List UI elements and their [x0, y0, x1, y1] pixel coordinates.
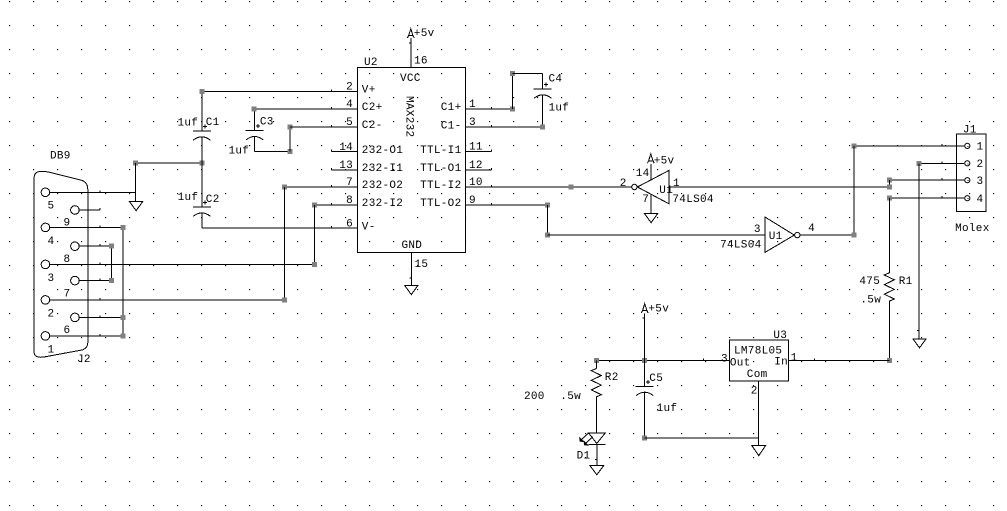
- power +5v (regulator output): [643, 304, 647, 311]
- svg-text:1uf: 1uf: [657, 403, 678, 415]
- junction J1 pin2 corner: [917, 161, 922, 166]
- DB9 pin 7: [71, 276, 80, 285]
- IC U2 MAX232 body: [358, 68, 466, 253]
- svg-text:475: 475: [859, 276, 880, 288]
- wire DB9 pin7: [79, 280, 111, 282]
- svg-text:VCC: VCC: [400, 73, 421, 85]
- U2 pin15 GND wire: [410, 253, 412, 286]
- svg-text:1: 1: [48, 344, 55, 356]
- svg-text:MAX232: MAX232: [402, 96, 414, 137]
- svg-text:1: 1: [673, 178, 680, 190]
- wire U3 pin2 Com down: [758, 381, 760, 446]
- capacitor C5: [636, 385, 654, 387]
- junction C2+: [252, 107, 257, 112]
- J1 pin 3: [965, 178, 970, 183]
- wire J1 pin2 down to ground: [918, 163, 920, 339]
- wire U2 pin11 stub: [466, 151, 492, 153]
- svg-text:U3: U3: [773, 330, 787, 342]
- svg-text:V-: V-: [362, 221, 376, 233]
- wire U1a output to J1 pin3 net: [669, 186, 890, 188]
- capacitor C4: [534, 88, 552, 90]
- ground symbol (J1 pin2): [913, 339, 926, 348]
- svg-text:.5w: .5w: [560, 391, 581, 403]
- wire U2 pin1 C1+: [466, 108, 513, 110]
- junction Out/R2: [594, 358, 599, 363]
- DB9 pin 6: [71, 313, 80, 322]
- wire to U1b input: [547, 234, 765, 236]
- svg-text:3: 3: [721, 353, 728, 365]
- svg-text:+5v: +5v: [414, 28, 435, 40]
- svg-text:15: 15: [415, 259, 429, 271]
- svg-text:16: 16: [414, 56, 428, 68]
- svg-text:74LS04: 74LS04: [672, 194, 714, 206]
- svg-text:74LS04: 74LS04: [720, 240, 762, 252]
- wire U2 pin12 stub: [466, 169, 492, 171]
- capacitor C2 lead bottom: [201, 213, 203, 228]
- wire DB9 pin5 to ground rail: [50, 191, 136, 193]
- svg-text:Molex: Molex: [955, 223, 990, 235]
- svg-text:R2: R2: [605, 372, 619, 384]
- svg-text:7: 7: [64, 288, 71, 300]
- wire U3 Out rail: [596, 360, 729, 362]
- wire DB9 pin9 stub: [79, 209, 100, 211]
- svg-text:4: 4: [977, 194, 984, 206]
- wire DB9 pin2 to U2 232-O2: [50, 299, 285, 301]
- junction Out/+5v/C5: [642, 358, 647, 363]
- svg-text:C2+: C2+: [362, 102, 383, 114]
- svg-text:232-I2: 232-I2: [362, 198, 403, 210]
- junction pin4: [121, 225, 126, 230]
- svg-text:1: 1: [791, 353, 798, 365]
- svg-text:232-O2: 232-O2: [362, 180, 403, 192]
- capacitor C1 lead top: [201, 92, 203, 132]
- capacitor C1 lead bottom: [201, 137, 203, 163]
- svg-text:TTL-I1: TTL-I1: [420, 145, 462, 157]
- wire J1 pin4: [889, 197, 964, 199]
- wire pin8-pin7 loop: [111, 246, 113, 280]
- wire C3 to C2-: [289, 127, 291, 152]
- wire C4 top rail: [512, 72, 542, 74]
- svg-text:C3: C3: [260, 117, 274, 129]
- wire DB9 pin6: [79, 316, 123, 318]
- svg-text:1uf: 1uf: [178, 117, 199, 129]
- wire U2 pin3 C1-: [466, 126, 543, 128]
- J1 pin 4: [965, 196, 970, 201]
- wire U2 pin7 232-O2: [285, 186, 358, 188]
- svg-text:DB9: DB9: [50, 151, 71, 163]
- capacitor C5 lead bottom: [644, 392, 646, 438]
- wire J1 pin3 down: [888, 180, 890, 187]
- svg-text:+5v: +5v: [648, 303, 669, 315]
- DB9 pin 3: [41, 260, 50, 269]
- junction V+: [199, 89, 204, 94]
- svg-text:C1-: C1-: [441, 120, 462, 132]
- svg-text:1uf: 1uf: [229, 145, 250, 157]
- wire J1 pin1: [854, 145, 964, 147]
- junction pin8: [109, 244, 114, 249]
- wire U2 pin14 stub: [332, 151, 358, 153]
- ground symbol (U2 pin15): [405, 286, 418, 295]
- wire DB9 pin4: [50, 226, 123, 228]
- svg-text:3: 3: [977, 176, 984, 188]
- svg-text:C5: C5: [649, 373, 663, 385]
- svg-text:Com: Com: [747, 369, 768, 381]
- svg-text:1uf: 1uf: [178, 192, 199, 204]
- wire +5v down to Out rail: [644, 314, 646, 361]
- svg-text:200: 200: [524, 391, 545, 403]
- junction U1b input corner: [545, 233, 550, 238]
- junction C4 top rail: [510, 71, 515, 76]
- svg-text:C2-: C2-: [362, 120, 383, 132]
- svg-text:C1: C1: [206, 117, 220, 129]
- wire U2 pin2 V+ to C1: [202, 91, 358, 93]
- svg-text:7: 7: [642, 194, 649, 206]
- svg-text:TTL-O2: TTL-O2: [420, 198, 461, 210]
- svg-text:232-I1: 232-I1: [362, 163, 404, 175]
- R2 lead bottom to D1: [595, 397, 597, 433]
- capacitor C2 lead top: [201, 163, 203, 207]
- DB9 pin 5: [41, 188, 50, 197]
- junction C5 bottom: [642, 435, 647, 440]
- LED D1: [588, 433, 605, 444]
- U1b output bubble: [795, 232, 800, 237]
- svg-text:4: 4: [48, 236, 55, 248]
- wire J1 pin4 down to R1: [888, 198, 890, 273]
- junction rail left: [133, 161, 138, 166]
- svg-text:14: 14: [636, 168, 650, 180]
- wire J1 pin1 down to U1b out: [853, 146, 855, 235]
- svg-text:C1+: C1+: [441, 102, 462, 114]
- svg-text:+5v: +5v: [654, 156, 675, 168]
- R1 lead bottom: [888, 301, 890, 361]
- U1a pin7 ground wire: [650, 194, 652, 214]
- connector J2 DB9 shell: [34, 172, 88, 358]
- resistor R1 475 .5w: [884, 273, 894, 301]
- junction J1 pin3 corner: [887, 178, 892, 183]
- D1 emission arrows: [581, 433, 593, 444]
- svg-text:6: 6: [64, 325, 71, 337]
- J1 pin 2: [965, 161, 970, 166]
- svg-text:C4: C4: [549, 74, 563, 86]
- wire U2 pin9 TTL-O2: [466, 204, 548, 206]
- svg-text:3: 3: [754, 224, 761, 236]
- junction TTL-O2 corner: [545, 202, 550, 207]
- wire 232-O2 down to DB9 pin2: [284, 187, 286, 300]
- DB9 pin 8: [71, 242, 80, 251]
- junction R1 / In rail: [887, 358, 892, 363]
- J1 pin 1: [965, 143, 970, 148]
- U1a pin14 +5v wire: [650, 164, 652, 180]
- svg-text:1uf: 1uf: [549, 103, 570, 115]
- capacitor C2: [193, 206, 211, 208]
- connector J1 Molex body: [956, 134, 986, 212]
- junction DB9 pin2 net: [282, 297, 287, 302]
- junction U1a out end: [887, 184, 892, 189]
- junction TTL-I2 wire: [569, 184, 574, 189]
- capacitor C4 lead top: [542, 73, 544, 89]
- wire ground rail: [136, 162, 202, 164]
- power +5v (U1a pin14): [649, 154, 653, 161]
- wire U2 pin6 V- to C2: [202, 227, 358, 229]
- capacitor C3 lead top: [254, 109, 256, 131]
- wire C3 bottom link: [255, 151, 290, 153]
- wire J1 pin2: [919, 162, 964, 164]
- wire pin4-pin6-pin1 bus: [122, 227, 124, 336]
- junction DB9 pin3 net: [312, 262, 317, 267]
- svg-text:In: In: [774, 357, 788, 369]
- capacitor C3: [246, 130, 264, 132]
- wire DB9 pin3 to U2 232-I2: [50, 263, 315, 265]
- svg-text:232-O1: 232-O1: [362, 145, 404, 157]
- svg-text:2: 2: [620, 178, 627, 190]
- DB9 pin 1: [41, 332, 50, 341]
- wire U1b output: [800, 234, 854, 236]
- junction C1- / C4: [540, 125, 545, 130]
- wire U2 pin10 TTL-I2 to U1a: [466, 186, 632, 188]
- svg-text:V+: V+: [362, 85, 376, 97]
- junction C1+: [510, 107, 515, 112]
- junction 232-I2: [312, 202, 317, 207]
- junction J1 pin4 corner: [887, 196, 892, 201]
- inverter U1 gate B (74LS04): [765, 217, 795, 253]
- ground symbol (U3 Com): [752, 446, 766, 456]
- svg-text:2: 2: [977, 159, 984, 171]
- wire J1 pin3: [889, 179, 964, 181]
- svg-text:U1: U1: [769, 231, 783, 243]
- svg-text:D1: D1: [577, 450, 591, 462]
- power +5v (U2 pin16): [409, 29, 413, 36]
- svg-text:.5w: .5w: [860, 295, 881, 307]
- DB9 pin 4: [41, 223, 50, 232]
- wire 232-I2 down to DB9 pin3: [314, 205, 316, 265]
- junction C3 bottom: [287, 149, 292, 154]
- svg-text:2: 2: [751, 386, 758, 398]
- svg-text:2: 2: [48, 308, 55, 320]
- inverter U1 gate A (74LS04): [637, 171, 668, 204]
- svg-text:J1: J1: [963, 124, 977, 136]
- wire U2 pin8 232-I2: [315, 204, 358, 206]
- ground symbol (U1a pin7): [645, 214, 658, 223]
- svg-text:GND: GND: [402, 240, 423, 252]
- resistor R2 200 .5w: [595, 361, 597, 369]
- wire rail down to ground: [135, 163, 137, 202]
- junction U1b out: [851, 233, 856, 238]
- junction pin1: [121, 333, 126, 338]
- svg-text:3: 3: [48, 273, 55, 285]
- svg-text:R1: R1: [899, 276, 913, 288]
- svg-text:TTL-O1: TTL-O1: [420, 163, 462, 175]
- ground symbol (D1): [590, 466, 604, 475]
- svg-text:U2: U2: [364, 57, 378, 69]
- capacitor C1: [193, 130, 211, 132]
- junction rail right / C1-C2 node: [199, 161, 204, 166]
- DB9 pin 9: [71, 206, 80, 215]
- junction 232-O2: [282, 184, 287, 189]
- wire U3 In to R1: [789, 360, 890, 362]
- U1a input bubble: [632, 184, 637, 189]
- U2 pin16 VCC wire: [410, 38, 412, 68]
- D1 lead to ground: [596, 445, 598, 466]
- junction pin6: [121, 315, 126, 320]
- IC U3 LM78L05 body: [729, 340, 788, 381]
- wire DB9 pin8: [79, 245, 111, 247]
- DB9 pin 2: [41, 296, 50, 305]
- svg-text:5: 5: [48, 201, 55, 213]
- wire DB9 pin1: [50, 335, 123, 337]
- svg-text:Out: Out: [730, 357, 751, 369]
- svg-text:4: 4: [808, 223, 815, 235]
- junction pin7: [109, 278, 114, 283]
- wire U2 pin5 C2-: [290, 126, 358, 128]
- wire U2 pin13 stub: [332, 169, 358, 171]
- wire C5 to Com: [644, 437, 758, 439]
- junction J1 pin1 corner: [851, 143, 856, 148]
- ground symbol (DB9 pin5): [130, 202, 143, 211]
- capacitor C4 lead bottom: [542, 95, 544, 127]
- wire U2 pin4 C2+ to C3: [254, 108, 358, 110]
- svg-text:1: 1: [977, 142, 984, 154]
- svg-text:C2: C2: [206, 194, 220, 206]
- wire C1+ up: [511, 73, 513, 109]
- capacitor C5 lead top: [644, 361, 646, 387]
- capacitor C3 lead bottom: [254, 137, 256, 152]
- wire TTL-O2 down: [546, 205, 548, 235]
- junction C2-: [287, 125, 292, 130]
- svg-text:TTL-I2: TTL-I2: [420, 180, 461, 192]
- svg-text:J2: J2: [77, 354, 91, 366]
